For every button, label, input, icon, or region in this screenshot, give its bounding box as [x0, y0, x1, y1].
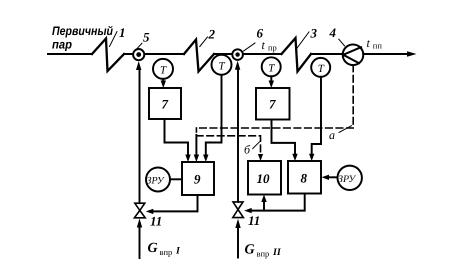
wire: injection water supply II with arrow: [235, 219, 240, 258]
svg-text:8: 8: [301, 171, 308, 186]
box 7b: [256, 88, 290, 120]
svg-text:а: а: [329, 128, 335, 142]
wire: steam line between zigzag1 and zigzag2: [124, 53, 184, 55]
wire: valve 11b up to node 6 with arrow: [235, 61, 240, 202]
label G_впр I: [148, 241, 182, 257]
svg-text:11: 11: [248, 213, 260, 228]
svg-text:пар: пар: [52, 38, 72, 52]
svg-text:II: II: [272, 247, 282, 258]
tick for label 3: [297, 32, 310, 49]
flow sensor 4 (circle with cone): [343, 45, 364, 66]
svg-text:T: T: [160, 65, 167, 77]
svg-text:G: G: [148, 241, 158, 256]
tick for label 1: [110, 32, 118, 47]
svg-text:11: 11: [150, 214, 162, 229]
svg-text:T: T: [219, 60, 226, 72]
wire: main steam line left segment: [48, 53, 92, 55]
wire: steam line between zigzag2 and zigzag3: [214, 53, 282, 55]
svg-text:9: 9: [194, 172, 201, 187]
controller ЗРУ1: [146, 168, 170, 192]
superheater section 2 (zigzag): [184, 40, 214, 72]
wire: T4 down, jog left, into box 8 with arrow: [309, 77, 321, 161]
node 5 (injection point): [133, 49, 144, 60]
regulator box 8: [288, 161, 321, 194]
svg-text:7: 7: [269, 97, 276, 112]
regulator box 9: [182, 162, 214, 195]
svg-text:пр: пр: [268, 43, 277, 53]
corrector box 10: [248, 161, 281, 195]
temperature sensor T2 (before node 6): [212, 55, 232, 75]
wire: signal a drop into box 9 with arrow: [194, 128, 199, 162]
wire: box 8 output to valve 11b with arrow: [244, 194, 305, 214]
dashed wire: flow sensor 4 down: [352, 65, 354, 128]
dashed wire: signal a horizontal: [196, 127, 353, 129]
label t_пп: [367, 36, 383, 51]
tick for label 4: [339, 39, 345, 46]
wire: ЗРУ2 to box 8 with arrow: [322, 175, 338, 180]
controller ЗРУ2: [338, 166, 362, 190]
svg-text:Первичный: Первичный: [52, 24, 113, 38]
label t_пр: [262, 38, 277, 53]
wire: steam line to flow sensor 4: [311, 53, 343, 55]
valve 11b (injection control valve): [233, 202, 244, 218]
svg-text:3: 3: [310, 26, 318, 41]
temperature sensor T3 (after node 6): [262, 57, 281, 76]
svg-text:впр: впр: [257, 249, 270, 259]
tick for label a: [339, 126, 352, 133]
svg-text:t: t: [367, 36, 371, 50]
svg-text:впр: впр: [160, 247, 173, 257]
superheater section 1 (zigzag): [92, 39, 124, 72]
wire: T3 to box 7b with arrow: [269, 76, 274, 88]
wire: injection water supply I with arrow: [137, 219, 142, 259]
box 7a: [149, 88, 181, 119]
svg-text:4: 4: [329, 25, 337, 40]
wire: box 7b output to box 8 with arrow: [272, 120, 298, 162]
wire: steam line output with arrow: [363, 51, 416, 57]
wire: box 7a output to box 9 with arrow: [165, 119, 191, 162]
svg-text:2: 2: [208, 27, 216, 42]
svg-text:пп: пп: [373, 41, 383, 51]
tick for label б: [253, 142, 260, 149]
tick for label 6: [244, 43, 256, 51]
wire: ЗРУ1 to box 9: [170, 178, 182, 180]
temperature sensor T1 (after node 5): [153, 59, 173, 79]
tick for label 2: [200, 37, 208, 47]
svg-text:10: 10: [257, 171, 271, 186]
dashed wire: branch б horizontal to box 10: [196, 136, 263, 161]
svg-text:б: б: [244, 143, 251, 157]
svg-text:ЗРУ: ЗРУ: [147, 176, 165, 187]
wire: box 9 output to valve 11a with arrow: [146, 195, 198, 214]
superheater section 3 (zigzag): [282, 38, 312, 72]
svg-text:5: 5: [143, 30, 150, 45]
label G_впр II: [245, 243, 282, 259]
wire: valve 11a up to node 5 with arrow: [136, 61, 141, 203]
temperature sensor T4 (after zigzag 3): [311, 58, 330, 77]
svg-text:7: 7: [162, 97, 169, 112]
valve 11a (injection control valve): [134, 203, 145, 218]
svg-text:t: t: [262, 38, 266, 52]
wire: T2 down, jog left, into box 9 with arrow: [203, 75, 221, 162]
svg-text:G: G: [245, 243, 255, 258]
node 6 (injection point): [232, 49, 243, 60]
svg-text:T: T: [268, 62, 275, 74]
wire: feedback from control line into box 10 with arrow: [261, 195, 266, 211]
svg-text:1: 1: [119, 25, 126, 40]
label: Первичный пар: [52, 24, 113, 52]
svg-text:T: T: [318, 63, 325, 75]
svg-text:I: I: [175, 246, 181, 257]
wire: T1 to box 7a with arrow: [161, 79, 166, 88]
tick for label 5: [135, 43, 142, 50]
svg-text:ЗРУ: ЗРУ: [338, 174, 356, 185]
